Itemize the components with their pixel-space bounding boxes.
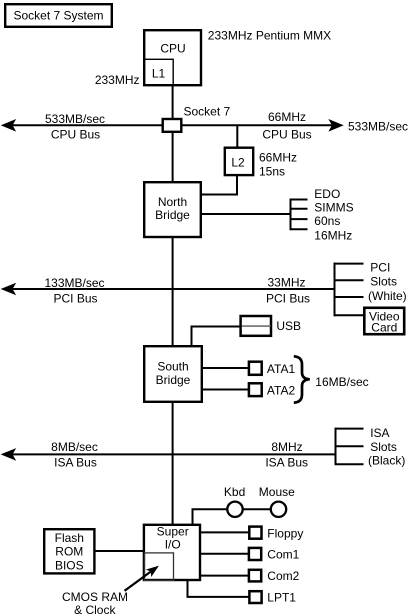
svg-text:ISA Bus: ISA Bus: [54, 456, 97, 470]
box CMOS RAM inner: [145, 553, 174, 581]
wire USB to South Bridge: [192, 327, 241, 347]
svg-text:CPU Bus: CPU Bus: [51, 128, 100, 142]
wire Socket 7 to North Bridge: [172, 133, 174, 181]
svg-text:Bridge: Bridge: [156, 373, 191, 387]
box USB: [241, 316, 271, 336]
svg-text:66MHz: 66MHz: [268, 110, 306, 124]
svg-text:North: North: [158, 195, 187, 209]
svg-text:Kbd: Kbd: [224, 485, 245, 499]
box Video Card: [364, 308, 404, 334]
svg-text:Socket 7: Socket 7: [184, 105, 231, 119]
wire PCI Bus horizontal: [12, 288, 335, 290]
svg-text:(White): (White): [368, 289, 407, 303]
brace ATA group: [294, 356, 310, 402]
box ATA2 connector: [249, 383, 262, 396]
wire South Bridge to Super IO spine: [172, 403, 174, 525]
wire memory tick 4: [291, 228, 308, 230]
divider USB middle line: [242, 325, 271, 327]
node Kbd connector circle: [227, 502, 242, 517]
svg-text:ROM: ROM: [55, 545, 83, 559]
svg-text:ATA2: ATA2: [267, 384, 296, 398]
svg-text:8MB/sec: 8MB/sec: [51, 440, 98, 454]
svg-text:LPT1: LPT1: [267, 591, 296, 605]
svg-text:PCI Bus: PCI Bus: [53, 292, 97, 306]
svg-text:Slots: Slots: [370, 275, 397, 289]
svg-text:Socket 7 System: Socket 7 System: [13, 9, 103, 23]
wire L2 drop from CPU bus: [236, 125, 238, 147]
svg-text:EDO: EDO: [314, 187, 340, 201]
wire ISA Bus horizontal: [12, 453, 336, 455]
node memory fork vertical: [290, 199, 292, 231]
box ATA1 connector: [249, 362, 262, 375]
arrow CMOS RAM pointer: [125, 572, 151, 591]
svg-text:PCI Bus: PCI Bus: [266, 291, 310, 305]
svg-text:533MB/sec: 533MB/sec: [45, 112, 105, 126]
wire memory tick 2: [291, 208, 308, 210]
box North Bridge: [144, 182, 201, 237]
svg-text:Com1: Com1: [267, 548, 299, 562]
box Socket 7: [163, 119, 182, 132]
arrowhead PCI bus left: [2, 284, 15, 295]
svg-text:Super: Super: [157, 524, 189, 538]
wire Super IO to Floppy: [201, 531, 249, 533]
wire Super IO to Com2: [201, 575, 249, 577]
svg-text:33MHz: 33MHz: [267, 276, 305, 290]
arrowhead CPU bus left: [2, 120, 15, 131]
box Super IO: [144, 525, 200, 580]
wire CPU Bus horizontal: [12, 124, 332, 126]
wire ISA tick 3: [336, 463, 364, 465]
wire CPU to Socket 7: [172, 86, 174, 118]
wire Flash ROM to Super IO: [96, 550, 145, 552]
svg-text:16MHz: 16MHz: [314, 228, 352, 242]
box Floppy connector: [249, 527, 261, 539]
wire South Bridge to ATA1: [203, 367, 249, 369]
wire North Bridge to memory fork: [202, 213, 291, 215]
node PCI fork vertical: [334, 263, 336, 317]
svg-text:15ns: 15ns: [259, 165, 285, 179]
svg-text:Floppy: Floppy: [267, 526, 303, 540]
svg-text:(Black): (Black): [368, 454, 405, 468]
wire North Bridge to South Bridge spine: [172, 237, 174, 346]
svg-text:CPU Bus: CPU Bus: [262, 128, 311, 142]
svg-text:60ns: 60ns: [314, 214, 340, 228]
svg-text:ISA: ISA: [370, 426, 389, 440]
svg-text:PCI: PCI: [370, 260, 390, 274]
svg-text:L2: L2: [231, 156, 245, 170]
svg-text:Bridge: Bridge: [155, 208, 190, 222]
svg-text:ATA1: ATA1: [267, 362, 296, 376]
wire ISA tick 2: [336, 445, 364, 447]
wire Super IO to Kbd and Mouse: [193, 509, 279, 525]
box South Bridge: [144, 346, 202, 402]
svg-text:Com2: Com2: [267, 569, 299, 583]
box Com2 connector: [249, 570, 261, 582]
box L2 cache: [225, 148, 253, 175]
arrowhead ISA bus left: [2, 449, 15, 460]
svg-text:Flash: Flash: [55, 531, 84, 545]
box Socket 7 System title: [5, 4, 112, 27]
wire Super IO to Com1: [201, 553, 249, 555]
box Flash ROM BIOS: [44, 529, 94, 573]
box LPT1 connector: [249, 591, 261, 603]
wire L2 to North Bridge: [202, 175, 237, 195]
svg-text:Card: Card: [371, 321, 397, 335]
wire ISA tick 1: [336, 428, 364, 430]
svg-text:233MHz: 233MHz: [95, 73, 140, 87]
svg-text:L1: L1: [152, 67, 166, 81]
box Com1 connector: [249, 548, 261, 560]
svg-text:Slots: Slots: [370, 440, 397, 454]
node Mouse connector circle: [271, 502, 286, 517]
wire memory tick 1: [291, 199, 308, 201]
wire Super IO to LPT1: [188, 581, 250, 597]
wire PCI tick 3: [335, 296, 364, 298]
wire PCI fork to Video Card: [335, 314, 365, 316]
svg-text:233MHz Pentium MMX: 233MHz Pentium MMX: [208, 29, 331, 43]
svg-text:66MHz: 66MHz: [259, 151, 297, 165]
svg-text:I/O: I/O: [165, 537, 181, 551]
svg-text:CPU: CPU: [160, 42, 185, 56]
box CPU: [144, 30, 201, 85]
box L1 cache: [144, 59, 173, 85]
svg-text:133MB/sec: 133MB/sec: [44, 276, 104, 290]
wire memory tick 3: [291, 218, 308, 220]
wire South Bridge to ATA2: [203, 389, 249, 391]
svg-text:ISA Bus: ISA Bus: [265, 455, 308, 469]
svg-text:SIMMS: SIMMS: [314, 200, 353, 214]
svg-text:16MB/sec: 16MB/sec: [315, 375, 368, 389]
arrowhead CPU bus right: [330, 120, 343, 131]
svg-text:South: South: [157, 360, 188, 374]
node ISA fork vertical: [335, 428, 337, 466]
svg-text:8MHz: 8MHz: [271, 440, 302, 454]
svg-text:533MB/sec: 533MB/sec: [348, 120, 408, 134]
wire PCI tick 2: [335, 279, 364, 281]
wire PCI tick 1: [335, 263, 364, 265]
svg-text:USB: USB: [276, 319, 301, 333]
svg-text:BIOS: BIOS: [55, 558, 84, 572]
svg-text:Mouse: Mouse: [259, 485, 295, 499]
svg-text:& Clock: & Clock: [74, 603, 116, 616]
